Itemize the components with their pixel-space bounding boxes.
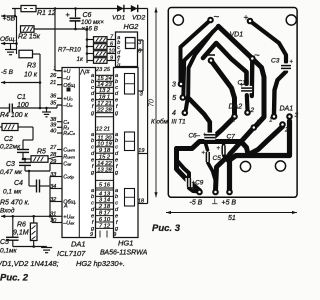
svg-text:×16 В: ×16 В xyxy=(82,26,98,33)
svg-text:DA2: DA2 xyxy=(229,104,243,111)
svg-text:10 к: 10 к xyxy=(24,72,38,79)
svg-text:HG2: HG2 xyxy=(124,22,139,31)
svg-text:R5: R5 xyxy=(37,149,46,156)
svg-text:ВА56-11SRWA: ВА56-11SRWA xyxy=(100,250,148,257)
svg-text:5 16: 5 16 xyxy=(99,183,111,189)
svg-text:5: 5 xyxy=(172,95,176,102)
svg-text:27: 27 xyxy=(49,145,57,151)
svg-text:С6: С6 xyxy=(83,12,92,19)
svg-text:С1: С1 xyxy=(17,94,26,101)
svg-text:С6–: С6– xyxy=(189,133,201,140)
svg-text:51: 51 xyxy=(228,215,236,222)
svg-text:a: a xyxy=(91,188,94,194)
svg-text:⊥: ⊥ xyxy=(212,197,219,206)
svg-text:70: 70 xyxy=(149,99,156,107)
svg-text:e: e xyxy=(115,98,118,104)
svg-text:VD2: VD2 xyxy=(132,14,145,21)
svg-text:c: c xyxy=(115,201,118,207)
svg-text:VD1: VD1 xyxy=(112,14,125,21)
svg-text:Вход: Вход xyxy=(0,207,15,215)
svg-text:e: e xyxy=(91,98,94,104)
svg-text:+: + xyxy=(290,60,294,66)
svg-text:14 22: 14 22 xyxy=(97,161,112,167)
svg-text:R5 470 к.: R5 470 к. xyxy=(0,200,30,207)
svg-text:6 10: 6 10 xyxy=(99,217,111,223)
svg-text:+: + xyxy=(244,12,249,22)
svg-text:0,1 мк: 0,1 мк xyxy=(3,189,22,196)
svg-text:+: + xyxy=(202,151,206,157)
svg-text:С7: С7 xyxy=(227,134,236,141)
svg-text:29: 29 xyxy=(49,159,56,165)
svg-text:e: e xyxy=(115,213,118,219)
svg-text:⋀/#: ⋀/# xyxy=(79,69,90,76)
svg-text:0,47 мк: 0,47 мк xyxy=(0,169,23,176)
svg-text:e: e xyxy=(91,157,94,163)
svg-text:e: e xyxy=(91,213,94,219)
svg-text:3: 3 xyxy=(172,82,176,89)
svg-text:С2: С2 xyxy=(4,136,13,143)
svg-text:3: 3 xyxy=(257,119,261,126)
svg-text:4: 4 xyxy=(172,110,176,117)
svg-text:15 2: 15 2 xyxy=(99,155,111,161)
svg-text:R6: R6 xyxy=(17,222,26,229)
svg-text:a: a xyxy=(115,188,118,194)
svg-text:1к: 1к xyxy=(77,56,84,63)
svg-text:–U: –U xyxy=(62,76,70,82)
svg-text:Общ.: Общ. xyxy=(0,35,16,43)
svg-text:Рис. 3: Рис. 3 xyxy=(152,223,181,234)
svg-text:А: А xyxy=(63,204,68,210)
svg-text:9,1М: 9,1М xyxy=(13,230,29,237)
svg-text:+С9: +С9 xyxy=(192,180,204,187)
svg-text:9: 9 xyxy=(90,232,93,238)
svg-text:~: ~ xyxy=(214,12,220,23)
svg-text:ICL7107: ICL7107 xyxy=(57,249,86,258)
svg-text:-5 В: -5 В xyxy=(1,69,14,76)
svg-text:VD1,VD2 1N4148;: VD1,VD2 1N4148; xyxy=(0,259,59,268)
svg-text:10 19: 10 19 xyxy=(97,142,112,148)
svg-text:31: 31 xyxy=(50,212,56,218)
svg-text:40: 40 xyxy=(50,128,57,134)
svg-text:9 18: 9 18 xyxy=(99,148,111,154)
svg-text:+: + xyxy=(203,133,207,139)
svg-text:9: 9 xyxy=(113,232,116,238)
svg-text:+: + xyxy=(240,83,244,89)
svg-text:HG1: HG1 xyxy=(118,239,133,248)
svg-text:R2 15к: R2 15к xyxy=(18,34,41,41)
svg-text:DA1: DA1 xyxy=(280,106,294,113)
svg-text:DA1: DA1 xyxy=(71,240,86,249)
svg-text:-5 В: -5 В xyxy=(190,200,203,207)
svg-text:e: e xyxy=(115,157,118,163)
svg-text:2: 2 xyxy=(250,107,255,114)
svg-text:8 17: 8 17 xyxy=(99,211,111,217)
svg-text:30: 30 xyxy=(50,218,57,224)
svg-text:35: 35 xyxy=(50,100,57,106)
svg-text:c: c xyxy=(91,201,94,207)
svg-text:13 28: 13 28 xyxy=(97,167,112,173)
svg-text:R4 100 к: R4 100 к xyxy=(0,112,29,119)
svg-text:10: 10 xyxy=(108,48,115,54)
svg-text:С3: С3 xyxy=(6,161,15,168)
svg-text:33: 33 xyxy=(50,172,57,178)
svg-text:1: 1 xyxy=(232,117,236,124)
svg-text:R3: R3 xyxy=(27,63,36,70)
svg-text:22 28: 22 28 xyxy=(96,108,112,114)
svg-text:С5: С5 xyxy=(213,155,222,162)
svg-text:+: + xyxy=(217,146,221,152)
svg-text:R7–R10: R7–R10 xyxy=(58,47,81,54)
svg-text:С4: С4 xyxy=(14,180,23,187)
svg-text:13 2: 13 2 xyxy=(99,88,111,94)
svg-text:c: c xyxy=(91,145,94,151)
svg-text:+5 В: +5 В xyxy=(222,200,237,207)
svg-text:17 21: 17 21 xyxy=(97,101,112,107)
svg-text:a: a xyxy=(115,132,118,138)
svg-text:c: c xyxy=(115,145,118,151)
svg-text:23 25: 23 25 xyxy=(95,67,111,73)
svg-text:VD1: VD1 xyxy=(230,32,244,39)
svg-text:2: 2 xyxy=(284,127,289,134)
svg-text:34: 34 xyxy=(50,184,56,190)
svg-text:0,1мк: 0,1мк xyxy=(0,248,17,255)
svg-text:11 20: 11 20 xyxy=(97,135,112,141)
svg-text:3 14: 3 14 xyxy=(99,198,110,204)
svg-text:28: 28 xyxy=(49,152,57,158)
svg-text:32: 32 xyxy=(50,197,57,203)
svg-text:b: b xyxy=(91,194,94,200)
svg-text:1: 1 xyxy=(53,66,56,72)
svg-text:2 18: 2 18 xyxy=(98,204,111,210)
svg-text:21: 21 xyxy=(49,80,56,86)
svg-text:3: 3 xyxy=(295,112,299,119)
svg-text:b: b xyxy=(115,194,118,200)
svg-text:7 12: 7 12 xyxy=(99,223,111,229)
svg-text:12 21: 12 21 xyxy=(96,127,110,133)
svg-text:b: b xyxy=(91,138,94,144)
svg-text:+U: +U xyxy=(63,69,70,75)
svg-text:a: a xyxy=(91,132,94,138)
svg-text:HG2 hp3230+.: HG2 hp3230+. xyxy=(76,259,125,268)
svg-text:R1 12: R1 12 xyxy=(37,10,56,17)
svg-text:18 1: 18 1 xyxy=(99,95,110,101)
svg-text:~: ~ xyxy=(254,51,260,62)
svg-text:С3: С3 xyxy=(271,58,280,65)
svg-text:26: 26 xyxy=(49,73,57,79)
svg-text:9: 9 xyxy=(110,55,113,61)
svg-text:1: 1 xyxy=(269,117,273,124)
svg-text:4 13: 4 13 xyxy=(99,191,111,197)
svg-text:b: b xyxy=(115,138,118,144)
svg-text:Рис. 2: Рис. 2 xyxy=(0,273,29,284)
svg-text:36: 36 xyxy=(50,94,57,100)
svg-text:+5В: +5В xyxy=(3,16,16,23)
